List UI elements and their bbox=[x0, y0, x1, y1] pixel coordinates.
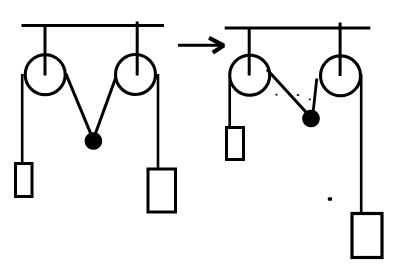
ceiling bar (right system) bbox=[225, 27, 371, 30]
rope mass knot to pulley D bbox=[313, 79, 317, 114]
hanger rod to pulley C bbox=[248, 27, 251, 76]
pulley B (left system, right) bbox=[116, 55, 156, 95]
right rope (right system) bbox=[360, 74, 363, 213]
hanger rod to pulley B bbox=[136, 22, 139, 76]
stray mark near right weight bbox=[328, 197, 332, 201]
center mass dot (left system) bbox=[85, 132, 103, 150]
left weight block (left system) bbox=[16, 164, 33, 197]
hanger rod to pulley D bbox=[339, 23, 342, 77]
rope pulley B to mass knot bbox=[94, 78, 116, 139]
rope pulley C to mass knot (diagonal) bbox=[267, 70, 310, 117]
arrow head bbox=[209, 38, 224, 53]
arrow shaft bbox=[178, 44, 223, 47]
right weight block (left system) bbox=[148, 169, 176, 212]
rope pulley A to mass knot bbox=[66, 74, 94, 141]
left rope (right system) bbox=[228, 74, 231, 127]
center mass dot (right system) bbox=[302, 110, 320, 128]
left rope (left system) bbox=[21, 74, 24, 163]
stray speck near knot rope bbox=[309, 99, 311, 101]
stray speck right bbox=[297, 94, 299, 96]
pulley A (left system, left) bbox=[25, 55, 65, 95]
stray speck left bbox=[276, 94, 278, 96]
ceiling bar (left system) bbox=[22, 24, 165, 27]
pulley C (right system, left) bbox=[230, 55, 270, 95]
pulley D (right system, right) bbox=[321, 56, 361, 96]
hanger rod to pulley A bbox=[44, 25, 47, 76]
left weight block (right system) bbox=[227, 128, 244, 160]
right weight block (right system) bbox=[352, 214, 382, 258]
right rope (left system) bbox=[157, 74, 160, 169]
